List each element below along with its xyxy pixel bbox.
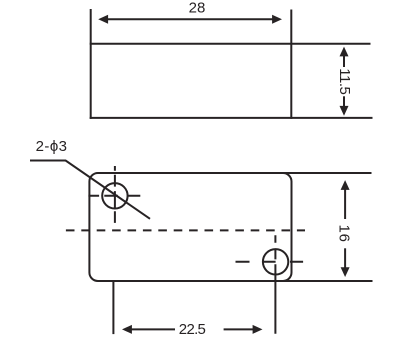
dimension 11.5: upper shaft xyxy=(343,56,345,67)
dimension 11.5: lower shaft xyxy=(343,96,345,106)
dimension 16: upper shaft xyxy=(344,190,346,220)
horizontal dashed centerline xyxy=(66,229,305,231)
bottom view: rounded rectangle body xyxy=(89,173,291,281)
bottom view: top edge extension line for 16 xyxy=(283,172,372,174)
bottom view: bottom edge extension line for 16 xyxy=(283,280,373,282)
svg-text:2-ϕ3: 2-ϕ3 xyxy=(36,138,68,155)
dimension 16: up arrowhead xyxy=(341,180,350,190)
top view: right extension line / right edge xyxy=(290,10,292,119)
hole 2 horizontal centerline xyxy=(236,261,304,263)
hole 2 vertical centerline (extends down as extension line for 22.5) xyxy=(274,235,276,334)
dimension 22.5: left extension line xyxy=(112,282,114,335)
dimension 11.5: up arrowhead xyxy=(340,47,349,57)
dimension 28: shaft xyxy=(107,18,273,20)
hole leader line from 2-phi-3 label xyxy=(30,161,150,219)
hole circle 2 xyxy=(263,249,288,274)
dimension 11.5: down arrowhead xyxy=(340,106,349,116)
dimension 22.5: right arrowhead xyxy=(253,325,263,334)
svg-text:11.5: 11.5 xyxy=(336,68,353,94)
dimension 22.5: right shaft xyxy=(224,328,253,330)
top view: left extension line / left edge xyxy=(90,9,92,119)
dimension 22.5: left arrowhead xyxy=(122,325,132,334)
hole 1 horizontal centerline xyxy=(88,195,140,197)
svg-text:22.5: 22.5 xyxy=(179,321,206,337)
dimension 28: left arrowhead xyxy=(98,15,108,24)
dimension 16: lower shaft xyxy=(344,248,346,267)
top view: bottom edge (extends right as extension line for 11.5) xyxy=(90,117,373,119)
dimension 16: down arrowhead xyxy=(341,267,350,277)
hole circle 1 xyxy=(102,183,127,208)
dimension 22.5: left shaft xyxy=(132,328,176,330)
svg-text:16: 16 xyxy=(335,224,352,242)
dimension 28: right arrowhead xyxy=(272,15,282,24)
hole 1 vertical centerline xyxy=(114,166,116,223)
svg-text:28: 28 xyxy=(189,0,206,16)
top view: top edge (extends right as extension line for 11.5) xyxy=(90,43,371,45)
